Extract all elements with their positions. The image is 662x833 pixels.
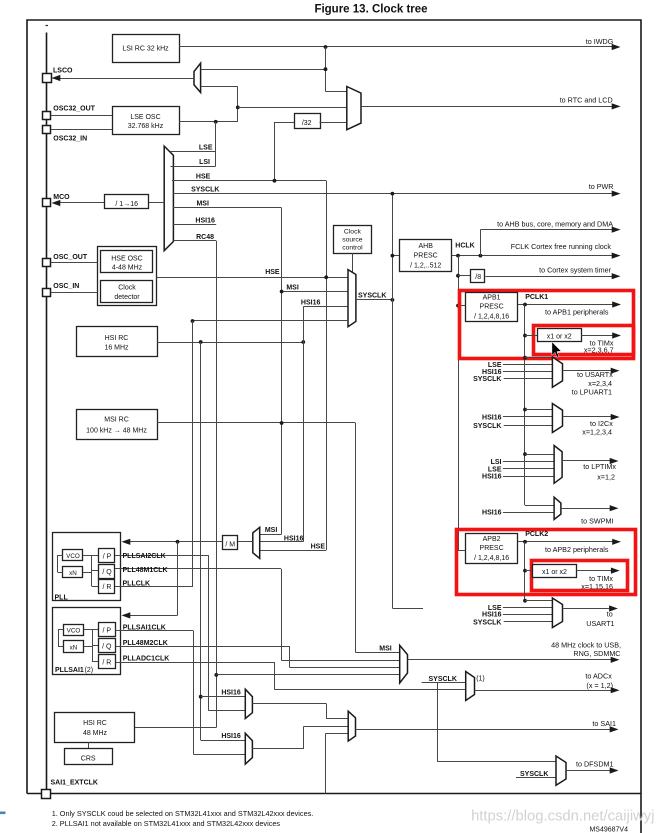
node SYSCLK junction <box>391 298 395 302</box>
wire /M to PLL arrow <box>129 541 223 543</box>
APB2 PRESC box <box>466 534 518 564</box>
svg-text:16 MHz: 16 MHz <box>104 345 129 352</box>
PLLSAI1 /R box <box>99 655 116 669</box>
wire to SWPMI arrow <box>561 508 610 510</box>
PLL xN box <box>63 567 83 578</box>
clock source control box <box>334 226 372 254</box>
svg-text:HSE: HSE <box>196 174 211 181</box>
wire PLLADC1CLK <box>115 662 275 664</box>
svg-text:to APB1 peripherals: to APB1 peripherals <box>545 308 609 317</box>
wire /32 to RTC mux <box>320 122 347 124</box>
pad OSC_OUT <box>43 259 51 267</box>
wire LSE OSC output <box>179 121 238 123</box>
svg-text:VCO: VCO <box>66 553 80 560</box>
svg-text:OSC32_IN: OSC32_IN <box>53 135 87 142</box>
wire LSCO output arrow <box>58 78 194 80</box>
wire RC48 stub <box>173 240 216 242</box>
svg-text:LSE: LSE <box>488 362 502 369</box>
svg-text:PCLK2: PCLK2 <box>525 531 548 538</box>
node LSI-LSCO junction <box>324 67 328 71</box>
wire HSI48 to CRS <box>88 743 90 749</box>
svg-text:OSC_IN: OSC_IN <box>53 283 79 290</box>
multiplier x1 or x2 APB2 <box>533 565 577 578</box>
svg-text:LSI RC 32 kHz: LSI RC 32 kHz <box>122 46 169 53</box>
wire 48MHz clock arrow <box>408 659 612 661</box>
wire HCLK to /8 <box>458 275 471 277</box>
mux USART1 select <box>552 598 562 628</box>
svg-text:/ M: / M <box>225 541 235 548</box>
svg-text:detector: detector <box>114 294 140 301</box>
svg-text:LSE: LSE <box>199 144 213 151</box>
svg-text:APB2: APB2 <box>483 536 501 543</box>
node LPTIM top junction <box>523 452 527 456</box>
wire SYSCLK branch to DFSDM <box>437 683 439 762</box>
wire to USARTx arrow <box>563 370 612 372</box>
wire LSE to RTC mux <box>238 107 347 109</box>
svg-text:to ADCx: to ADCx <box>585 672 612 681</box>
node RC48 48MHz junction <box>214 673 218 677</box>
wire PCLK2 vertical <box>524 542 526 601</box>
PLLSAI1 /Q box <box>99 639 116 653</box>
svg-text:SYSCLK: SYSCLK <box>473 619 501 626</box>
wire SYSCLK vertical <box>392 194 394 608</box>
svg-text:x1 or x2: x1 or x2 <box>547 334 572 341</box>
svg-text:xN: xN <box>69 570 77 577</box>
svg-text:MSI: MSI <box>196 201 209 208</box>
svg-text:to LPTIMx: to LPTIMx <box>583 462 616 471</box>
PLLSAI1 /P box <box>99 623 116 637</box>
PLL VCO box <box>63 550 83 561</box>
svg-text:to USARTx: to USARTx <box>577 370 613 379</box>
mux LSCO select <box>194 63 201 92</box>
svg-text:to: to <box>607 610 613 619</box>
svg-text:to DFSDM1: to DFSDM1 <box>576 759 614 768</box>
wire LSE to LSCO mux <box>201 86 238 88</box>
PLLSAI1 VCO box <box>64 625 84 636</box>
svg-text:FCLK Cortex free running clock: FCLK Cortex free running clock <box>511 242 612 251</box>
wire to RTC and LCD arrow <box>361 106 612 108</box>
node LSI branch <box>324 45 328 49</box>
svg-text:source: source <box>342 237 363 244</box>
node TIM2 junction <box>523 569 527 573</box>
node LSE-RTC junction <box>236 106 240 110</box>
wire to Cortex system timer arrow <box>485 276 612 278</box>
svg-text:USART1: USART1 <box>586 619 614 628</box>
mux SAI pre A <box>245 689 252 718</box>
CRS box <box>65 749 113 765</box>
svg-text:(1): (1) <box>476 675 485 682</box>
wire HCLK to APB2 PRESC <box>458 550 465 552</box>
node HSI16 branch <box>301 340 305 344</box>
mux I2C select <box>552 404 562 433</box>
svg-text:HSI16: HSI16 <box>482 369 502 376</box>
svg-text:SYSCLK: SYSCLK <box>358 293 386 300</box>
svg-text:SYSCLK: SYSCLK <box>520 771 548 778</box>
svg-text:48 MHz clock to USB,: 48 MHz clock to USB, <box>551 641 621 650</box>
wire HSI16 stub <box>173 224 216 226</box>
wire PCLK2 to USART1 mux <box>525 600 552 602</box>
svg-text:x=1,15,16: x=1,15,16 <box>581 582 613 591</box>
svg-text:HSI16: HSI16 <box>284 535 304 542</box>
svg-text:PLLSAI1CLK: PLLSAI1CLK <box>123 625 166 632</box>
node HSI16 SAI-A junction <box>199 695 203 699</box>
wire HSI16 to SYSCLK mux <box>303 307 305 343</box>
blue artifact <box>0 812 6 815</box>
wire OSC32_OUT to LSE OSC <box>51 115 112 117</box>
svg-text:PRESC: PRESC <box>480 545 504 552</box>
pad OSC32_OUT <box>43 112 51 120</box>
pad OSC32_IN <box>43 126 51 134</box>
mux ADC select <box>466 672 475 701</box>
svg-text:to Cortex system timer: to Cortex system timer <box>539 266 611 275</box>
svg-text:x=2,3,6,7: x=2,3,6,7 <box>584 345 614 354</box>
wire HSE bus <box>172 180 326 182</box>
pad SAI1_EXTCLK <box>42 790 51 799</box>
wire MSI vertical <box>281 208 283 534</box>
PLL block box <box>53 533 121 601</box>
divider /M <box>223 536 238 550</box>
svg-text:HCLK: HCLK <box>455 242 474 249</box>
wire PLL mux to /M <box>238 541 253 543</box>
wire HSI16 stub LPTIM <box>503 476 554 478</box>
node PLLCLK corner <box>191 319 195 323</box>
svg-text:SYSCLK: SYSCLK <box>429 676 457 683</box>
divider /8 <box>471 270 485 283</box>
svg-text:/ R: / R <box>103 584 112 591</box>
wire SYSCLK stub I2C <box>504 425 553 427</box>
wire to AHB bus arrow <box>480 230 482 256</box>
oscillator MSI RC 100 kHz - 48 MHz <box>77 410 158 440</box>
svg-text:HSI16: HSI16 <box>221 733 241 740</box>
wire PLLSAI2CLK <box>115 555 209 557</box>
wire PCLK2 to x1 or x2 <box>525 570 533 572</box>
wire SYSCLK stub ADC <box>422 682 466 684</box>
wire PCLK1 to x1or x2 <box>525 335 537 337</box>
wire HSI16 down to SAI muxes <box>200 342 202 740</box>
wire HSI16 stub USART1 <box>503 614 553 616</box>
node USARTx top junction <box>523 356 527 360</box>
svg-text:to IWDG: to IWDG <box>586 37 614 46</box>
PLL /P box <box>99 549 115 563</box>
wire HCLK vertical <box>458 256 460 551</box>
svg-text:OSC_OUT: OSC_OUT <box>53 254 88 261</box>
wire HSI RC output <box>157 342 303 344</box>
wire PLL48M1CLK <box>115 568 281 570</box>
svg-text:PLLCLK: PLLCLK <box>123 580 151 587</box>
node HSI16 branch down <box>199 340 203 344</box>
mux USARTx select <box>552 357 562 387</box>
svg-text:HSE OSC: HSE OSC <box>111 256 143 263</box>
wire HSE vertical <box>326 181 328 550</box>
pad OSC_IN <box>43 289 51 297</box>
svg-text:HSI16: HSI16 <box>195 217 215 224</box>
svg-text:/8: /8 <box>475 274 481 281</box>
mux PLL source select <box>253 527 260 558</box>
mux DFSDM select <box>556 756 566 785</box>
PLL /Q box <box>99 565 115 579</box>
svg-text:LSI: LSI <box>199 159 210 166</box>
APB2 red highlight inner <box>532 561 628 591</box>
node HSE /32 branch <box>273 179 277 183</box>
mux 48MHz clock select <box>400 645 408 683</box>
node SYSCLK PWR junction <box>391 192 395 196</box>
svg-text:Clock: Clock <box>344 229 362 236</box>
wire PLLSAI1CLK <box>115 630 193 632</box>
svg-text:PLL48M2CLK: PLL48M2CLK <box>123 640 168 647</box>
oscillator LSI RC 32 kHz <box>113 35 180 63</box>
svg-text:to SWPMI: to SWPMI <box>581 517 613 526</box>
wire control to mux <box>352 253 354 272</box>
wire OSC_OUT to HSE OSC <box>51 262 98 264</box>
wire SYSCLK dead end <box>392 608 423 610</box>
wire RC48 to 48MHz mux <box>216 674 399 676</box>
divider /1-16 <box>105 195 149 209</box>
svg-text:PCLK1: PCLK1 <box>525 294 548 301</box>
svg-text:to RTC and LCD: to RTC and LCD <box>560 95 613 104</box>
wire PCLK1 to SWPMI mux <box>525 505 554 507</box>
svg-text:x=1,2: x=1,2 <box>597 473 615 482</box>
wire HSI16 to SAI mux B <box>201 740 246 742</box>
svg-text:PRESC: PRESC <box>414 252 438 259</box>
oscillator HSI RC 16 MHz <box>77 327 158 357</box>
pad LSCO <box>43 74 52 83</box>
svg-text:/32: /32 <box>302 120 312 127</box>
svg-text:4-48 MHz: 4-48 MHz <box>112 265 143 272</box>
wire HSI16 to SAI mux A <box>201 696 246 698</box>
svg-text:MCO: MCO <box>53 194 70 201</box>
svg-text:LSE: LSE <box>488 466 502 473</box>
svg-text:HSI RC: HSI RC <box>83 720 107 727</box>
mux LPTIM select <box>554 446 562 484</box>
svg-text:48 MHz: 48 MHz <box>83 730 108 737</box>
svg-text:x1 or x2: x1 or x2 <box>542 569 567 576</box>
svg-text:2. PLLSAI1 not available on ST: 2. PLLSAI1 not available on STM32L41xxx … <box>52 819 281 828</box>
svg-text:(x = 1,2): (x = 1,2) <box>586 681 613 690</box>
wire HSE to /32 <box>274 122 276 181</box>
svg-text:xN: xN <box>70 645 78 652</box>
svg-text:(2): (2) <box>85 667 94 674</box>
wire SAI mux A output <box>252 703 326 705</box>
node TIM1 junction <box>523 334 527 338</box>
svg-text:PLLADC1CLK: PLLADC1CLK <box>123 656 170 663</box>
wire PLLCLK to SYSCLK mux <box>193 320 349 322</box>
wire HSI16 to PLL mux <box>303 342 305 542</box>
wire MSI down to 48MHz mux <box>355 423 357 653</box>
wire SYSCLK output <box>356 299 393 301</box>
node MSI RC junction <box>280 421 284 425</box>
mux RTC select <box>347 87 361 130</box>
svg-text:/ Q: / Q <box>102 569 112 576</box>
wire LSE stub USART1 <box>503 607 553 609</box>
wire to USART1 arrow <box>563 608 610 610</box>
svg-text:Figure 13. Clock tree: Figure 13. Clock tree <box>314 4 427 16</box>
mux SYSCLK select <box>348 270 356 327</box>
wire MSI to PLL mux <box>260 534 282 536</box>
wire RC48 vertical <box>216 241 218 728</box>
svg-text:CRS: CRS <box>81 756 96 763</box>
PLL internal wires <box>83 555 92 557</box>
svg-text:PLL48M1CLK: PLL48M1CLK <box>123 567 168 574</box>
svg-text:/ Q: / Q <box>102 644 112 651</box>
svg-text:MSI: MSI <box>265 527 278 534</box>
svg-text:SAI1_EXTCLK: SAI1_EXTCLK <box>51 780 98 787</box>
wire HSE to PLL mux <box>260 550 327 552</box>
svg-text:HSE: HSE <box>265 269 280 276</box>
svg-text:SYSCLK: SYSCLK <box>473 376 501 383</box>
wire HSI48 output <box>135 727 216 729</box>
node LSE branch <box>214 120 218 124</box>
svg-text:PLLSAI2CLK: PLLSAI2CLK <box>123 553 166 560</box>
wire LSI RC to IWDG <box>179 46 612 48</box>
node HSE sysclk junction <box>324 275 328 279</box>
wire PCLK1 to LPTIM mux <box>525 454 554 456</box>
node HCLK vertical junction <box>456 254 460 258</box>
svg-text:/ 1,2,4,8,16: / 1,2,4,8,16 <box>474 314 509 321</box>
wire LSE stub <box>171 151 216 153</box>
svg-text:/ 1,2,..512: / 1,2,..512 <box>410 262 441 269</box>
wire SYSCLK to AHB PRESC <box>392 255 399 257</box>
svg-text:HSI16: HSI16 <box>482 414 502 421</box>
wire feed to PLLSAI1 arrow <box>129 615 178 617</box>
APB2 red highlight outer <box>457 530 636 595</box>
node APB1 input junction <box>456 304 460 308</box>
wire PCLK1 to APB1 peripherals <box>518 304 613 306</box>
svg-text:HSI16: HSI16 <box>221 690 241 697</box>
svg-text:HSI16: HSI16 <box>482 474 502 481</box>
node PLL feed junction <box>176 540 180 544</box>
svg-text:HSI16: HSI16 <box>301 299 321 306</box>
PLL /R box <box>99 580 115 594</box>
svg-text:to LPUART1: to LPUART1 <box>572 388 612 397</box>
wire MSI RC output <box>157 422 356 424</box>
svg-text:HSI16: HSI16 <box>482 612 502 619</box>
wire HSI16 stub USARTx <box>503 371 553 373</box>
wire LSE stub LPTIM <box>503 468 554 470</box>
APB1 red highlight inner <box>534 326 634 355</box>
svg-text:MSI RC: MSI RC <box>104 417 129 424</box>
PLLSAI1 block box <box>53 608 121 675</box>
svg-text:to AHB bus, core, memory and D: to AHB bus, core, memory and DMA <box>497 219 613 228</box>
svg-text:MS49687V4: MS49687V4 <box>589 827 628 833</box>
mouse cursor <box>552 342 561 358</box>
chip edge line <box>46 33 48 790</box>
divider /32 <box>295 114 321 129</box>
wire PCLK1 vertical <box>524 305 526 506</box>
svg-text:control: control <box>342 245 363 252</box>
svg-text:100 kHz → 48 MHz: 100 kHz → 48 MHz <box>86 428 147 435</box>
node MSI sysclk junction <box>280 290 284 294</box>
svg-text:MSI: MSI <box>379 645 392 652</box>
svg-text:RNG, SDMMC: RNG, SDMMC <box>573 649 620 658</box>
oscillator HSE OSC 4-48 MHz <box>101 251 153 273</box>
svg-text:SYSCLK: SYSCLK <box>191 186 219 193</box>
svg-text:PLL: PLL <box>55 594 69 601</box>
wire HSE OSC output to SYSCLK mux <box>157 277 349 279</box>
node PCLK2 junction <box>523 540 527 544</box>
svg-text:to SAI1: to SAI1 <box>592 719 616 728</box>
wire PCLK1 to USARTx mux <box>525 357 552 359</box>
wire SAI mux B output <box>252 748 304 750</box>
wire LSI to LSCO mux <box>201 69 326 71</box>
svg-text:/ 1→16: / 1→16 <box>115 201 138 208</box>
wire SYSCLK stub USART1 <box>504 621 553 623</box>
wire to TIMx APB2 arrow <box>577 570 612 572</box>
wire HCLK to APB1 PRESC <box>458 305 465 307</box>
wire to DFSDM1 arrow <box>566 770 610 772</box>
svg-text:RC48: RC48 <box>196 234 214 241</box>
svg-text:HSI RC: HSI RC <box>105 335 129 342</box>
svg-text:MSI: MSI <box>286 284 299 291</box>
svg-text:x=1,2,3,4: x=1,2,3,4 <box>582 428 612 437</box>
svg-text:/ R: / R <box>102 659 111 666</box>
PLLSAI1 xN box <box>64 641 84 653</box>
node USART1 top junction <box>523 599 527 603</box>
APB1 red highlight outer <box>460 291 634 359</box>
oscillator HSI RC 48 MHz <box>55 713 135 743</box>
AHB PRESC box <box>400 240 452 272</box>
svg-text:32.768 kHz: 32.768 kHz <box>128 123 164 130</box>
node /8 junction <box>456 274 460 278</box>
PLLSAI1 internal wires <box>84 629 92 631</box>
svg-text:Clock: Clock <box>118 285 136 292</box>
wire to SAI1 arrow <box>356 729 611 731</box>
svg-text:/ P: / P <box>103 628 112 635</box>
svg-text:LSI: LSI <box>491 459 502 466</box>
svg-text:1. Only SYSCLK coud be selecte: 1. Only SYSCLK coud be selected on STM32… <box>52 809 314 818</box>
wire to LPTIMx arrow <box>562 460 610 462</box>
APB1 PRESC box <box>466 293 518 322</box>
wire PCLK1 to I2C mux <box>525 409 552 411</box>
wire PLL48M2CLK <box>115 646 290 648</box>
clock detector box <box>101 281 153 303</box>
wire OSC_IN to clock detector <box>51 292 98 294</box>
wire SYSCLK stub USARTx <box>504 378 553 380</box>
pad MCO <box>43 199 51 207</box>
oscillator LSE OSC 32.768 kHz <box>113 107 180 135</box>
svg-text:LSCO: LSCO <box>53 68 73 75</box>
svg-text:APB1: APB1 <box>483 295 501 302</box>
wire HSI16 stub I2C <box>503 416 553 418</box>
svg-text:https://blog.csdn.net/caijiwyj: https://blog.csdn.net/caijiwyj <box>471 809 654 825</box>
svg-text:PRESC: PRESC <box>480 304 504 311</box>
wire MSI stub <box>173 207 282 209</box>
node I2C top junction <box>523 408 527 412</box>
svg-text:PLLSAI1: PLLSAI1 <box>55 667 84 674</box>
svg-text:OSC32_OUT: OSC32_OUT <box>53 106 95 113</box>
svg-text:LSE OSC: LSE OSC <box>130 114 160 121</box>
wire LSI to RTC mux <box>326 91 347 93</box>
node PCLK1 junction <box>523 303 527 307</box>
wire MSI to SYSCLK mux <box>282 291 348 293</box>
multiplier x1 or x2 APB1 <box>538 329 582 342</box>
wire SYSCLK stub DFSDM <box>516 777 556 779</box>
wire to I2Cx arrow <box>563 416 612 418</box>
svg-text:AHB: AHB <box>418 243 433 250</box>
wire LSE stub USARTx <box>503 364 553 366</box>
svg-text:SYSCLK: SYSCLK <box>473 423 501 430</box>
wire MCO output <box>58 202 105 204</box>
wire PCLK2 to APB2 peripherals <box>518 541 613 543</box>
svg-text:to PWR: to PWR <box>589 182 614 191</box>
wire HSI16 stub SWPMI <box>503 512 554 514</box>
wire PLL feed vertical <box>177 542 179 616</box>
svg-text:HSE: HSE <box>311 544 326 551</box>
svg-text:to APB2 peripherals: to APB2 peripherals <box>545 545 609 554</box>
svg-text:HSI16: HSI16 <box>482 510 502 517</box>
mux MCO select <box>164 146 173 251</box>
wire SAI1_EXTCLK to SAI1 mux <box>325 733 327 793</box>
node AHB arrow junction <box>479 254 483 258</box>
